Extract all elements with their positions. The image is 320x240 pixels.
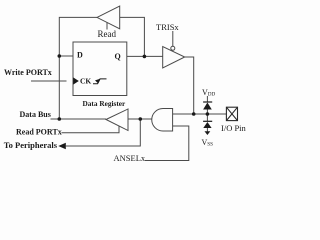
wire: read buffer input from Q node bbox=[120, 17, 145, 56]
wire: D input line bbox=[59, 55, 73, 57]
node: read/peripherals junction bbox=[139, 117, 143, 121]
svg-text:TRISx: TRISx bbox=[156, 22, 179, 32]
arrowhead CK input bbox=[73, 77, 79, 84]
svg-text:Q: Q bbox=[115, 52, 121, 61]
diode D2 (to VSS) bbox=[203, 122, 211, 128]
wire: TRISx buffer output down to pin line bbox=[185, 57, 194, 114]
diode D1 (to VDD) bbox=[203, 103, 212, 110]
node: data bus junction bbox=[58, 117, 62, 121]
svg-text:D: D bbox=[77, 51, 83, 60]
node: D junction bbox=[58, 54, 62, 58]
wire: Q output line to TRISx buffer bbox=[127, 55, 163, 57]
wire: data bus line bbox=[51, 118, 107, 120]
svg-text:Write PORTx: Write PORTx bbox=[4, 68, 52, 77]
wire: read PORTx enable line bbox=[62, 126, 120, 133]
arrowhead to VSS bbox=[205, 131, 211, 135]
svg-text:Read PORTx: Read PORTx bbox=[16, 127, 62, 136]
clock edge symbol bbox=[93, 79, 107, 84]
svg-text:CK: CK bbox=[80, 77, 91, 86]
node: Q junction bbox=[143, 55, 147, 59]
tri-state buffer TRISx bbox=[163, 47, 185, 69]
wire: write PORTx line bbox=[31, 80, 67, 82]
svg-text:ANSELx: ANSELx bbox=[114, 153, 146, 163]
svg-text:Data Register: Data Register bbox=[83, 99, 127, 108]
read PORTx tri-state buffer bbox=[106, 109, 128, 131]
wire: TRISx label leader bbox=[172, 31, 174, 46]
wire: read buffer2 input from AND gate output bbox=[128, 118, 152, 120]
wire: upper diode to pin node to lower diode bbox=[206, 110, 208, 122]
wire: lower diode to VSS arrow bbox=[206, 128, 208, 132]
wire: to peripherals line bbox=[66, 119, 141, 146]
data register box U1 bbox=[73, 42, 127, 96]
diode D2 cathode bar bbox=[203, 120, 212, 122]
wire: read buffer output to D node and data bus vertical bbox=[59, 17, 97, 119]
svg-text:Read: Read bbox=[98, 29, 117, 39]
node: TRISx output junction bbox=[192, 112, 196, 116]
svg-text:VDD: VDD bbox=[202, 88, 216, 98]
wire: VDD to upper diode bbox=[206, 96, 208, 102]
wire: ANSELx line to AND gate input bbox=[145, 126, 189, 161]
diode D1 cathode bar bbox=[203, 101, 212, 103]
buffer U2 (Read) bbox=[97, 6, 120, 29]
node: diode/pin junction bbox=[206, 112, 210, 116]
svg-text:To Peripherals: To Peripherals bbox=[4, 140, 58, 150]
AND gate (input buffer) bbox=[152, 109, 173, 132]
svg-text:Data Bus: Data Bus bbox=[20, 110, 51, 119]
wire: read label leader bbox=[106, 22, 108, 29]
I/O pin pad bbox=[226, 107, 237, 120]
svg-text:I/O Pin: I/O Pin bbox=[221, 123, 247, 133]
svg-text:VSS: VSS bbox=[202, 138, 214, 148]
arrowhead to peripherals bbox=[58, 143, 66, 149]
wire: pin line from AND gate to I/O pin bbox=[173, 113, 227, 115]
bubble on TRISx enable bbox=[171, 46, 175, 50]
